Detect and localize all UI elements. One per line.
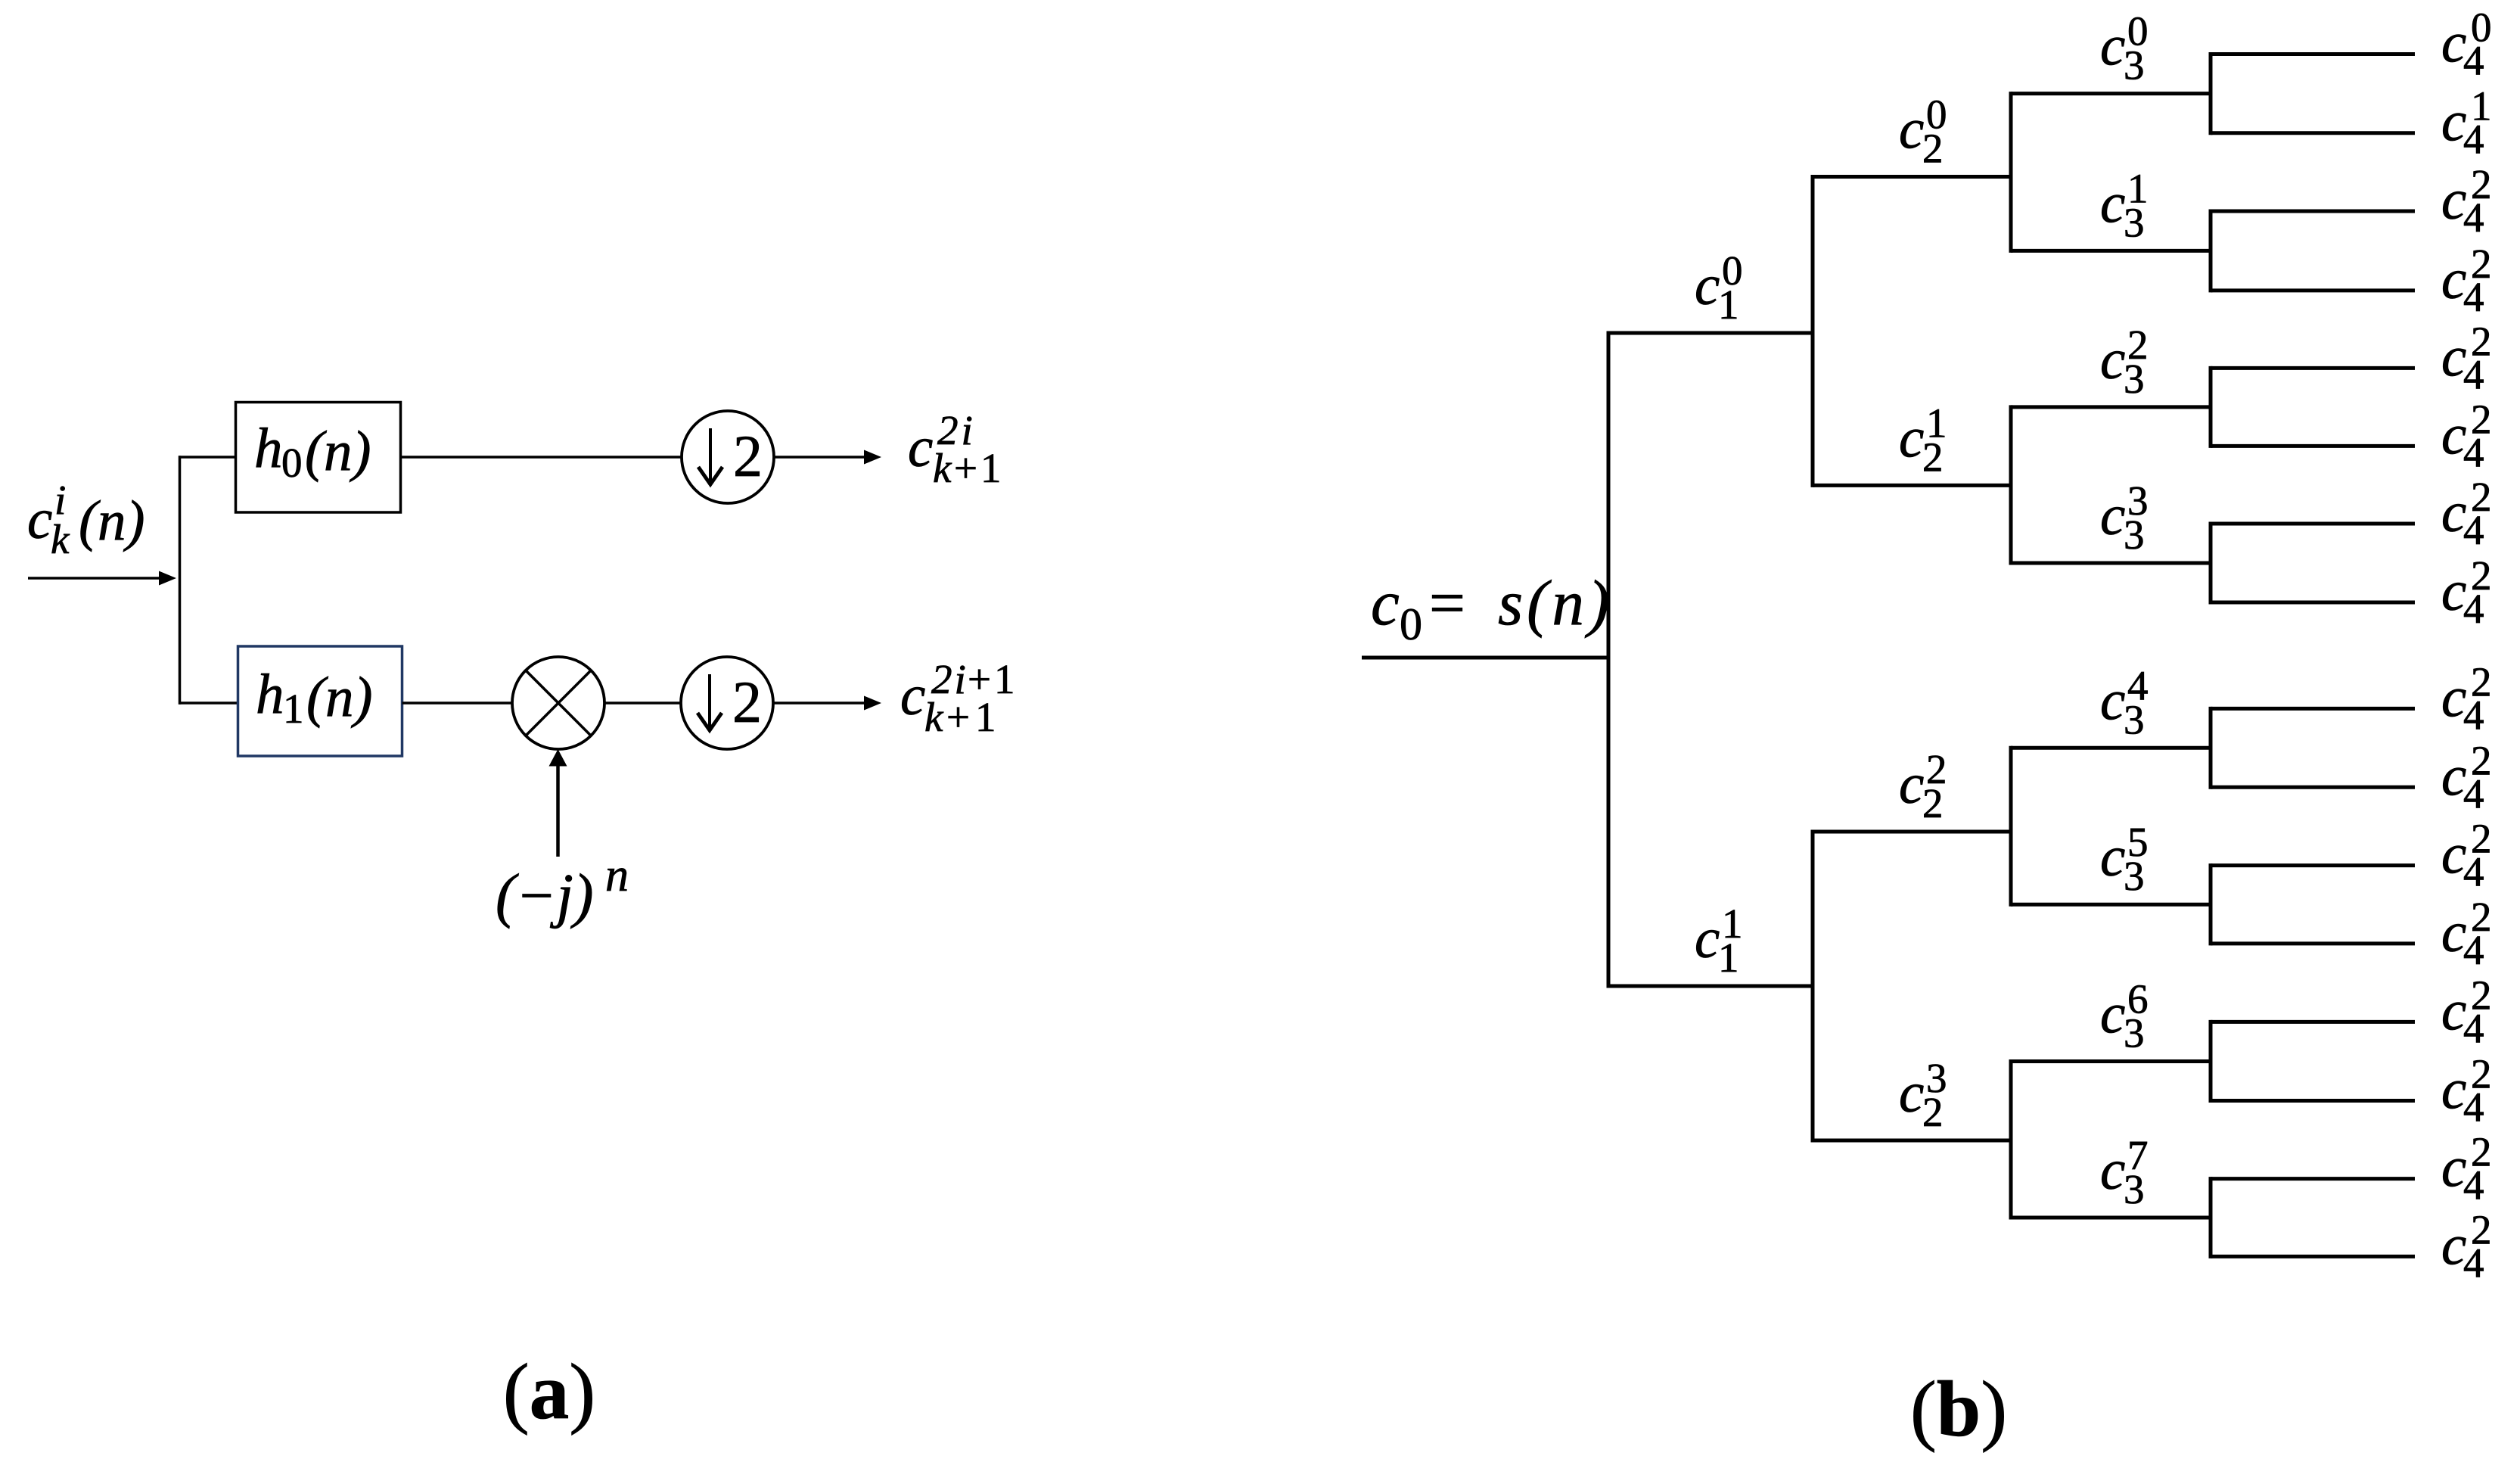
svg-text:c: c [2100,328,2125,391]
filter block h1(n) box [238,646,402,756]
wire: M1 to downsampler D2 [604,702,682,705]
svg-text:3: 3 [2124,1010,2145,1056]
svg-text:(a): (a) [503,1347,595,1436]
wire: branch c_3^2 [2011,405,2213,409]
svg-text:(n): (n) [305,420,371,483]
node label c_4^2 (leaf 3) [2441,241,2492,320]
svg-text:2: 2 [1922,434,1944,480]
wire: trunk vertical (root split) [1607,331,1611,988]
arrowhead of D1 output [864,450,881,465]
node label c_4^2 (leaf 13) [2441,1051,2492,1131]
arrowhead of D2 output [864,696,881,711]
svg-text:c: c [2100,669,2125,732]
node label c_4^2 (leaf 8) [2441,658,2492,738]
node label c_4^1 (leaf 1) [2441,83,2492,163]
svg-text:c: c [2100,172,2125,235]
svg-text:4: 4 [2463,1084,2484,1131]
wire: tree root input [1362,656,1611,660]
wire: leaf line c_4 #6 [2211,522,2415,526]
wire: junction to h1 box [179,702,238,705]
wire: branch c_1^1 [1608,985,1815,988]
svg-text:c: c [1695,254,1720,317]
wire: leaf line c_4 #15 [2211,1255,2415,1258]
svg-text:4: 4 [2463,849,2484,895]
svg-text:4: 4 [2463,429,2484,475]
svg-text:c: c [2100,1139,2125,1202]
svg-text:k: k [933,445,952,491]
wire: split of c_3^2 [2209,366,2213,448]
wire: branch c_3^3 [2011,562,2213,565]
svg-text:3: 3 [2124,1166,2145,1212]
wire: leaf line c_4 #12 [2211,1020,2415,1024]
wire: branch c_3^5 [2011,903,2213,907]
node label c_2^0 [1899,92,1947,172]
wire: leaf line c_4 #8 [2211,707,2415,711]
wire: split of c_1^1 [1811,830,1815,1143]
node label c_4^2 (leaf 4) [2441,318,2492,397]
svg-text:c: c [2100,15,2125,78]
node label c_3^2 [2100,322,2149,402]
svg-text:4: 4 [2463,507,2484,553]
svg-text:2: 2 [1922,780,1944,826]
wire: branch c_2^3 [1813,1139,2013,1143]
svg-text:4: 4 [2463,1162,2484,1209]
wire: leaf line c_4 #4 [2211,366,2415,370]
svg-text:k: k [51,516,70,562]
svg-text:1: 1 [283,686,304,732]
wire: branch c_3^7 [2011,1216,2213,1220]
wire: modulation input arrow shaft [556,765,560,857]
wire: branch c_2^1 [1813,484,2013,487]
wire: leaf line c_4 #5 [2211,444,2415,448]
svg-text:2: 2 [732,669,762,735]
svg-text:c: c [1899,753,1924,816]
wire: branch c_3^6 [2011,1059,2213,1063]
svg-text:h: h [254,417,283,480]
svg-text:4: 4 [2463,38,2484,84]
svg-text:+1: +1 [954,445,1005,491]
node label c_2^2 [1899,746,1947,826]
wire: split of c_3^6 [2209,1020,2213,1103]
node label c_1^1 [1695,901,1743,981]
wire: leaf line c_4 #7 [2211,601,2415,605]
wire: leaf line c_4 #3 [2211,288,2415,292]
wire: branch c_3^0 [2011,92,2213,95]
node label c_4^2 (leaf 6) [2441,474,2492,553]
node label c_2^1 [1899,400,1947,480]
wire: h1 box to multiplier M1 [402,702,514,705]
label h1(n) inside box [256,663,372,732]
downsampler D1 circle (top) [682,411,774,503]
wire: split of c_3^4 [2209,707,2213,789]
node label c_2^3 [1899,1055,1947,1135]
arrowhead of input wire [159,571,176,586]
filter block h0(n) box [236,403,401,513]
node label c_4^2 (leaf 7) [2441,552,2492,632]
svg-text:4: 4 [2463,927,2484,973]
node label c_{k+1}^{2i+1} (bottom output) [900,656,1018,740]
svg-text:4: 4 [2463,117,2484,163]
svg-text:3: 3 [2124,696,2145,742]
svg-text:4: 4 [2463,351,2484,397]
svg-text:4: 4 [2463,770,2484,817]
wire: h0 box to downsampler D1 [401,456,683,459]
svg-text:4: 4 [2463,194,2484,241]
wire: split of c_3^1 [2209,210,2213,293]
svg-text:2: 2 [1922,126,1944,172]
node label c_4^2 (leaf 15) [2441,1206,2492,1286]
node label c_4^2 (leaf 14) [2441,1129,2492,1209]
node label c_k^i(n) (input signal) [27,477,144,562]
node label c_4^2 (leaf 12) [2441,972,2492,1051]
wire: junction vertical (splits to h0/h1) [179,456,182,705]
wire: branch c_3^4 [2011,746,2213,750]
svg-text:0: 0 [1400,599,1422,649]
svg-text:c: c [1899,406,1924,469]
svg-text:0: 0 [281,440,303,486]
svg-text:4: 4 [2463,586,2484,632]
node label c_4^2 (leaf 5) [2441,396,2492,475]
wire: branch c_2^2 [1813,830,2013,834]
arrowhead into multiplier M1 [549,749,567,767]
svg-text:(−j): (−j) [496,863,594,929]
svg-text:=: = [1429,568,1465,639]
svg-text:3: 3 [2124,42,2145,89]
wire: junction to h0 box [179,456,236,459]
svg-text:c: c [900,664,925,727]
wire: D2 output arrow [773,702,865,705]
wire: leaf line c_4 #9 [2211,785,2415,789]
svg-text:1: 1 [1718,282,1739,328]
wire: split of c_2^1 [2009,405,2013,565]
svg-text:c: c [2100,983,2125,1046]
wire: leaf line c_4 #10 [2211,863,2415,867]
down-arrow glyph inside D2 [698,674,722,730]
node label c_{k+1}^{2i} (top output) [908,407,1005,491]
svg-text:3: 3 [2124,853,2145,899]
node label c_3^6 [2100,976,2149,1056]
label h0(n) inside box [254,417,371,486]
node label c_4^0 (leaf 0) [2441,5,2492,84]
svg-text:(b): (b) [1910,1364,2007,1453]
svg-text:c: c [1371,568,1400,639]
wire: branch c_1^0 [1608,331,1815,335]
svg-text:4: 4 [2463,1005,2484,1051]
svg-text:c: c [1899,98,1924,161]
svg-text:2: 2 [733,423,763,489]
svg-text:3: 3 [2124,199,2145,245]
node label c_4^2 (leaf 10) [2441,816,2492,895]
wire: split of c_3^7 [2209,1177,2213,1258]
node label c_3^1 [2100,165,2149,245]
svg-text:3: 3 [2124,512,2145,558]
X cross of multiplier M1 [526,670,590,735]
svg-text:c: c [908,416,933,479]
node label c_3^0 [2100,8,2149,89]
svg-text:4: 4 [2463,1240,2484,1286]
wire: split of c_2^0 [2009,92,2013,253]
svg-text:4: 4 [2463,692,2484,738]
svg-text:c: c [1899,1062,1924,1125]
svg-text:c: c [2100,484,2125,547]
wire: leaf line c_4 #14 [2211,1177,2415,1181]
wire: split of c_3^0 [2209,52,2213,135]
svg-text:(n): (n) [79,490,144,552]
wire: leaf line c_4 #1 [2211,131,2415,135]
node label c_4^2 (leaf 2) [2441,161,2492,241]
wire: input into junction node [28,577,161,580]
node label c_1^0 [1695,247,1743,328]
svg-text:+1: +1 [946,694,1002,740]
wire: leaf line c_4 #2 [2211,210,2415,213]
svg-text:4: 4 [2463,274,2484,320]
svg-text:c: c [2100,826,2125,888]
wire: leaf line c_4 #11 [2211,941,2415,945]
node label (-j)^n (modulation signal) [496,850,629,929]
downsampler D2 circle (bottom) [681,657,773,749]
wire: D1 output arrow [774,456,865,459]
svg-text:2: 2 [1922,1089,1944,1135]
svg-text:s(n): s(n) [1498,568,1613,639]
svg-text:c: c [27,488,52,551]
wire: split of c_3^3 [2209,522,2213,605]
node label c_4^2 (leaf 11) [2441,894,2492,973]
node label c_3^5 [2100,819,2149,899]
svg-text:3: 3 [2124,356,2145,402]
wire: split of c_2^3 [2009,1059,2013,1220]
node label c_0 = s(n) (tree root) [1371,568,1613,649]
wire: leaf line c_4 #0 [2211,52,2415,56]
node label c_3^4 [2100,662,2149,742]
node label c_4^2 (leaf 9) [2441,737,2492,817]
wire: branch c_2^0 [1813,175,2013,179]
wire: split of c_1^0 [1811,175,1815,487]
multiplier M1 circle [512,657,604,749]
svg-text:(n): (n) [306,666,372,729]
wire: leaf line c_4 #13 [2211,1099,2415,1103]
svg-text:k: k [924,694,944,740]
wire: branch c_3^1 [2011,249,2213,253]
node label c_3^7 [2100,1132,2149,1212]
node label c_3^3 [2100,478,2149,558]
svg-text:1: 1 [1718,935,1739,981]
wire: split of c_3^5 [2209,863,2213,945]
svg-text:c: c [1695,907,1720,970]
down-arrow glyph inside D1 [698,428,722,484]
wire: split of c_2^2 [2009,746,2013,907]
svg-text:h: h [256,663,284,726]
svg-text:n: n [605,850,629,901]
